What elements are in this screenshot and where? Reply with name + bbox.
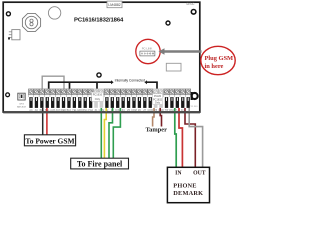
wire green phone: [175, 108, 176, 168]
svg-text:in here: in here: [205, 63, 224, 70]
wire red to power GSM: [46, 108, 48, 135]
mounting hole above terminals: [97, 73, 101, 77]
svg-text:Tamper: Tamper: [146, 127, 168, 134]
wire darkred phone: [185, 108, 195, 168]
wire gray phone: [189, 108, 202, 168]
svg-text:T-1 R-1: T-1 R-1: [190, 106, 198, 108]
hole: [48, 7, 60, 19]
wire darkred tamper: [160, 108, 161, 127]
wire jumper gray: [42, 76, 64, 89]
piezo buzzer: [22, 13, 40, 31]
PC-LINK header: [140, 47, 155, 56]
node To-Fire-panel: [71, 158, 129, 169]
mounting hole mid: [166, 21, 170, 25]
svg-text:IN: IN: [175, 171, 182, 177]
wire green2 fire: [109, 108, 113, 159]
phone jack: [190, 92, 198, 108]
svg-text:Plug GSM: Plug GSM: [205, 55, 234, 62]
wire internally-connected: [49, 78, 157, 88]
svg-text:OUT: OUT: [193, 171, 206, 177]
svg-text:To Fire panel: To Fire panel: [77, 160, 123, 169]
wire yellow fire: [104, 108, 106, 159]
mounting hole bottom-left: [6, 93, 10, 97]
board bottom edge: [3, 111, 200, 113]
node PC1616-only: [92, 92, 104, 101]
component relay box: [166, 63, 181, 71]
svg-text:DSC: DSC: [187, 2, 195, 6]
svg-text:Internally Connected: Internally Connected: [115, 78, 145, 82]
component battery connector: [17, 93, 27, 108]
wire green1 fire: [100, 108, 102, 159]
node PGM4-only: [153, 94, 163, 105]
wire green3 fire: [113, 108, 120, 159]
svg-text:PC-LINK: PC-LINK: [142, 47, 153, 51]
board outline: [3, 2, 200, 112]
svg-text:To Power GSM: To Power GSM: [25, 136, 74, 145]
svg-text:DEMARK: DEMARK: [173, 190, 203, 197]
svg-text:PHONE: PHONE: [173, 183, 196, 190]
svg-text:LM4882: LM4882: [108, 3, 120, 7]
terminal strip: [28, 89, 190, 112]
mounting hole top-left: [6, 12, 10, 16]
node To-Power-GSM: [24, 135, 75, 146]
svg-text:Only: Only: [155, 102, 161, 105]
wire tan tamper: [153, 108, 154, 127]
mounting hole top-right: [191, 10, 196, 15]
connector J1: [8, 30, 20, 40]
wire arrow: [159, 48, 202, 54]
node Phone-Demark: [167, 167, 209, 202]
node Plug-GSM: [201, 46, 235, 74]
label box top: [107, 1, 122, 8]
svg-text:PC1616/1832/1864: PC1616/1832/1864: [74, 18, 124, 24]
svg-text:Only: Only: [95, 97, 101, 101]
node PC-LINK circle: [136, 39, 160, 63]
svg-text:BAT AUX: BAT AUX: [17, 105, 27, 108]
wire red phone: [179, 108, 182, 168]
wire black to power GSM: [42, 108, 44, 135]
svg-text:CHG: CHG: [19, 104, 24, 106]
svg-text:PC1616: PC1616: [93, 93, 103, 97]
